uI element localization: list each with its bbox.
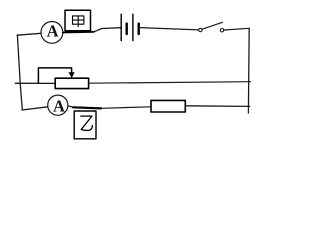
wire battery to switch xyxy=(140,28,199,30)
box component 乙 xyxy=(74,111,96,139)
ammeter A2 xyxy=(48,95,68,115)
battery B2 long plate xyxy=(132,14,134,40)
svg-text:A: A xyxy=(47,22,59,41)
svg-text:A: A xyxy=(53,96,65,115)
wire xyxy=(94,28,121,32)
wire resistor to right bus xyxy=(185,105,249,108)
box component 甲 xyxy=(65,10,91,31)
rheostat slider tap wire xyxy=(38,68,71,83)
switch S blade xyxy=(202,22,222,29)
wire over box 乙 (thick) xyxy=(73,107,101,108)
battery B1 short plate xyxy=(125,24,127,34)
wire right vertical bus xyxy=(247,28,250,113)
wire corner to A2 xyxy=(22,107,48,110)
switch S pivot xyxy=(199,28,202,31)
resistor R2 body xyxy=(151,100,185,112)
wire to resistor xyxy=(101,107,151,109)
wire left vertical bus xyxy=(17,35,22,110)
switch S contact xyxy=(220,29,223,32)
wire A1 to battery (thick under box) xyxy=(63,31,94,34)
battery B1 long plate xyxy=(120,14,122,40)
ammeter A1 xyxy=(41,22,63,44)
rheostat main wire left xyxy=(15,82,55,84)
rheostat slider arrowhead xyxy=(69,72,75,78)
rheostat R1 body xyxy=(55,78,88,88)
wire A2 to box (thin) xyxy=(68,106,73,107)
wire switch to corner xyxy=(224,28,249,30)
rheostat wire right xyxy=(89,82,251,84)
battery B2 short plate xyxy=(137,24,139,34)
wire top-left horizontal xyxy=(17,33,41,35)
